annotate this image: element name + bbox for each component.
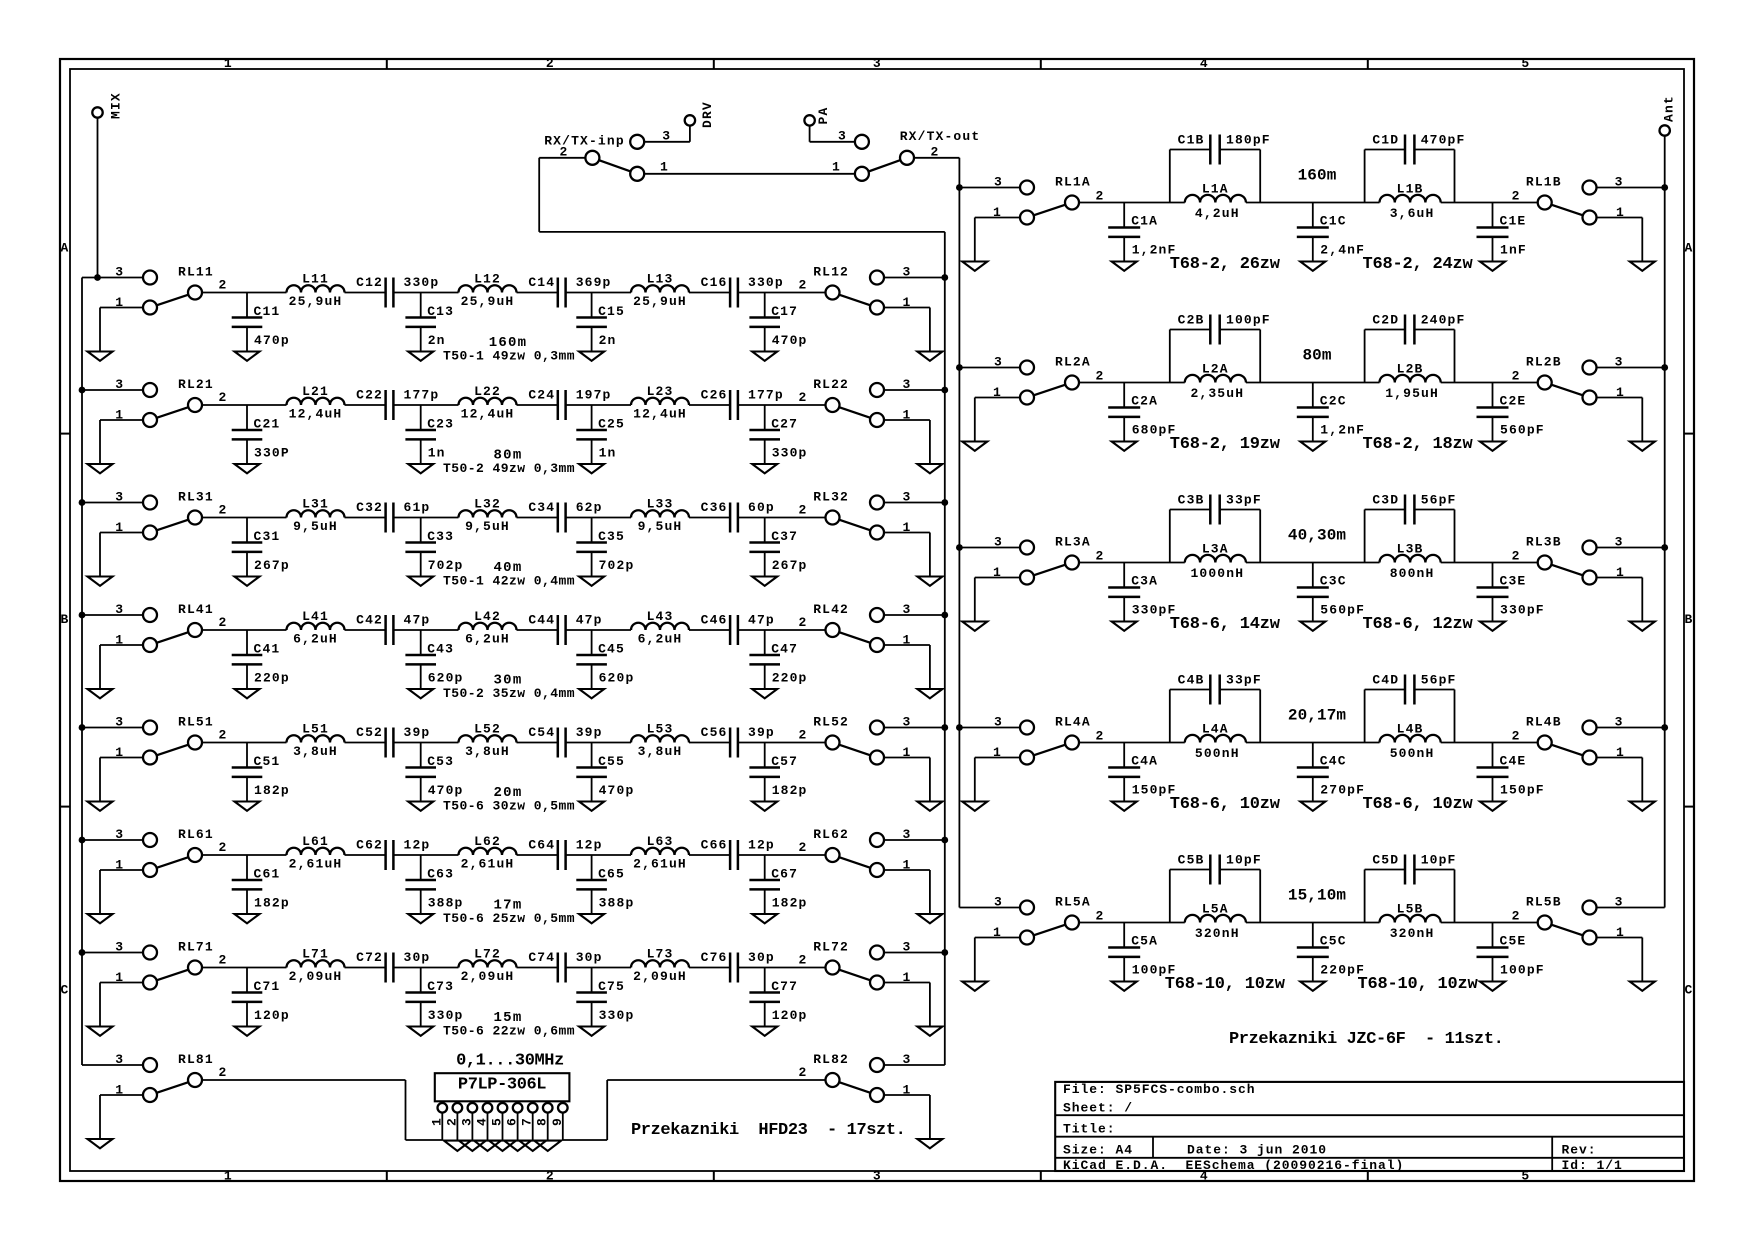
inductor L1B (1380, 182, 1441, 222)
capacitor C16 (701, 275, 784, 308)
svg-text:C4A: C4A (1131, 754, 1158, 769)
ground (579, 914, 604, 923)
inductor L12 (459, 272, 517, 309)
svg-text:39p: 39p (404, 725, 431, 740)
svg-text:L4B: L4B (1397, 722, 1424, 737)
junction (956, 184, 963, 191)
svg-text:177p: 177p (748, 387, 784, 402)
svg-text:320nH: 320nH (1195, 926, 1240, 941)
capacitor C2C (1297, 383, 1365, 442)
wire main (202, 967, 287, 969)
wire (929, 983, 931, 1027)
wire (1597, 937, 1643, 939)
ground (534, 1141, 561, 1151)
ground (88, 1139, 113, 1148)
wire main (202, 854, 287, 856)
ground (579, 802, 604, 811)
wire main (202, 629, 287, 631)
svg-text:MIX: MIX (109, 92, 124, 119)
wire (884, 614, 945, 616)
capacitor C21 (232, 405, 290, 464)
wire (99, 533, 101, 577)
svg-text:T68-10, 10zw: T68-10, 10zw (1165, 975, 1286, 994)
svg-text:T68-6, 10zw: T68-6, 10zw (1170, 795, 1281, 814)
svg-text:3: 3 (115, 827, 124, 842)
svg-text:RL72: RL72 (813, 940, 849, 955)
svg-text:C47: C47 (771, 642, 798, 657)
inductor L11 (287, 272, 345, 309)
svg-text:33pF: 33pF (1226, 493, 1262, 508)
wire (1597, 217, 1643, 219)
capacitor C73 (405, 968, 463, 1027)
svg-text:1: 1 (832, 160, 841, 175)
capacitor C1B (1170, 133, 1271, 203)
ground (1112, 622, 1137, 631)
ground (1630, 982, 1655, 991)
capacitor C1C (1297, 203, 1365, 262)
ground (474, 1141, 501, 1151)
wire (975, 397, 1020, 399)
svg-text:20,17m: 20,17m (1288, 707, 1347, 725)
svg-text:C52: C52 (356, 725, 383, 740)
wire (100, 644, 143, 646)
svg-text:4: 4 (1200, 56, 1209, 71)
svg-text:2,35uH: 2,35uH (1190, 386, 1244, 401)
svg-text:330p: 330p (748, 275, 784, 290)
svg-text:L5A: L5A (1202, 902, 1229, 917)
svg-text:2: 2 (1096, 909, 1105, 924)
svg-text:3: 3 (115, 377, 124, 392)
inductor L5B (1380, 902, 1441, 942)
svg-text:220p: 220p (254, 671, 290, 686)
capacitor C32 (356, 500, 430, 533)
svg-text:C43: C43 (427, 642, 454, 657)
svg-text:RL41: RL41 (178, 602, 214, 617)
svg-text:Rev:: Rev: (1562, 1143, 1597, 1158)
wire (100, 1094, 143, 1096)
wire row 4 pin3 feed (82, 614, 143, 616)
wire (405, 1080, 407, 1140)
junction (941, 387, 948, 394)
capacitor C41 (232, 630, 290, 689)
wire (1597, 757, 1643, 759)
svg-text:270pF: 270pF (1320, 783, 1365, 798)
wire (1641, 938, 1643, 982)
svg-text:C1D: C1D (1372, 133, 1399, 148)
svg-text:267p: 267p (772, 558, 808, 573)
wire (975, 937, 1020, 939)
relay RL22 (799, 377, 912, 427)
junction (79, 387, 86, 394)
wire (929, 308, 931, 352)
relay RL62 (799, 827, 912, 877)
svg-text:C74: C74 (528, 950, 555, 965)
svg-text:3: 3 (994, 175, 1003, 190)
svg-text:2n: 2n (428, 333, 446, 348)
svg-text:2: 2 (219, 953, 228, 968)
wire main (202, 517, 287, 519)
svg-text:L41: L41 (302, 609, 329, 624)
wire (884, 389, 945, 391)
relay RL82 (799, 1052, 912, 1102)
wire (1597, 187, 1665, 189)
svg-text:9: 9 (550, 1117, 565, 1126)
wire (884, 1064, 945, 1066)
ground (917, 1139, 942, 1148)
wire row 5 pin3 feed (82, 727, 143, 729)
inductor L22 (459, 384, 517, 421)
svg-text:RL52: RL52 (813, 715, 849, 730)
capacitor C71 (232, 968, 290, 1027)
wire (1597, 367, 1665, 369)
svg-text:3: 3 (115, 1052, 124, 1067)
svg-text:RL62: RL62 (813, 827, 849, 842)
svg-text:369p: 369p (576, 275, 612, 290)
svg-text:C1B: C1B (1178, 133, 1205, 148)
wire (974, 758, 976, 802)
capacitor C53 (405, 743, 463, 802)
relay RL4A (993, 715, 1104, 765)
svg-text:560pF: 560pF (1320, 603, 1365, 618)
capacitor C36 (701, 500, 775, 533)
svg-text:C1E: C1E (1500, 214, 1527, 229)
wire (99, 308, 101, 352)
wire (975, 217, 1020, 219)
svg-text:39p: 39p (748, 725, 775, 740)
svg-text:C24: C24 (528, 387, 555, 402)
wire (100, 757, 143, 759)
svg-text:L31: L31 (302, 497, 329, 512)
svg-text:C34: C34 (528, 500, 555, 515)
svg-text:L53: L53 (647, 722, 674, 737)
svg-text:C76: C76 (701, 950, 728, 965)
ground (1630, 622, 1655, 631)
ground (1300, 262, 1325, 271)
ground (235, 689, 260, 698)
svg-text:RL82: RL82 (813, 1052, 849, 1067)
wire (809, 125, 811, 142)
ground (752, 352, 777, 361)
ground (235, 352, 260, 361)
svg-text:C4B: C4B (1178, 673, 1205, 688)
ground (1300, 442, 1325, 451)
svg-text:2n: 2n (599, 333, 617, 348)
relay RL5A (993, 895, 1104, 945)
svg-text:L73: L73 (647, 947, 674, 962)
capacitor C14 (528, 275, 611, 308)
svg-text:RL42: RL42 (813, 602, 849, 617)
capacitor C4B (1170, 673, 1262, 743)
svg-text:RL31: RL31 (178, 490, 214, 505)
svg-text:L2A: L2A (1202, 362, 1229, 377)
wire (99, 645, 101, 689)
svg-text:C64: C64 (528, 837, 555, 852)
svg-text:2: 2 (1512, 189, 1521, 204)
svg-text:39p: 39p (576, 725, 603, 740)
svg-text:12,4uH: 12,4uH (633, 406, 687, 421)
capacitor C5E (1477, 923, 1545, 982)
wire left bus (81, 278, 83, 1066)
svg-text:2: 2 (1096, 369, 1105, 384)
ground (962, 982, 987, 991)
svg-text:12p: 12p (404, 837, 431, 852)
junction (956, 724, 963, 731)
wire (929, 870, 931, 914)
svg-text:320nH: 320nH (1390, 926, 1435, 941)
svg-text:150pF: 150pF (1500, 783, 1545, 798)
junction (1661, 724, 1668, 731)
ground (88, 914, 113, 923)
ground (1480, 622, 1505, 631)
wire (100, 419, 143, 421)
svg-text:3,8uH: 3,8uH (465, 744, 510, 759)
capacitor C75 (576, 968, 634, 1027)
svg-text:500nH: 500nH (1195, 746, 1240, 761)
wire row 5 pin3 feed (959, 907, 1020, 909)
svg-text:470p: 470p (428, 783, 464, 798)
svg-text:10pF: 10pF (1421, 853, 1457, 868)
wire (884, 1094, 930, 1096)
ground (1112, 982, 1137, 991)
svg-text:C77: C77 (771, 979, 798, 994)
svg-text:T50-6 30zw 0,5mm: T50-6 30zw 0,5mm (443, 799, 575, 814)
wire (99, 758, 101, 802)
ground (88, 352, 113, 361)
ground (1112, 262, 1137, 271)
junction (941, 949, 948, 956)
ground (459, 1141, 486, 1151)
inductor L52 (459, 722, 517, 759)
svg-text:3: 3 (115, 265, 124, 280)
svg-text:6,2uH: 6,2uH (465, 631, 510, 646)
wire main (1079, 562, 1185, 564)
capacitor C3D (1365, 493, 1457, 563)
svg-text:C5B: C5B (1178, 853, 1205, 868)
svg-text:L72: L72 (474, 947, 501, 962)
svg-text:177p: 177p (404, 387, 440, 402)
svg-text:C22: C22 (356, 387, 383, 402)
svg-text:L62: L62 (474, 834, 501, 849)
capacitor C62 (356, 837, 430, 870)
svg-text:C17: C17 (771, 304, 798, 319)
svg-text:C4C: C4C (1320, 754, 1347, 769)
svg-text:C2E: C2E (1500, 394, 1527, 409)
svg-text:C62: C62 (356, 837, 383, 852)
svg-text:470p: 470p (772, 333, 808, 348)
capacitor C37 (749, 518, 807, 577)
svg-text:1nF: 1nF (1500, 243, 1527, 258)
svg-text:L61: L61 (302, 834, 329, 849)
junction (79, 724, 86, 731)
svg-text:C45: C45 (598, 642, 625, 657)
ground (88, 689, 113, 698)
svg-text:2: 2 (799, 953, 808, 968)
ground (752, 914, 777, 923)
svg-text:C5C: C5C (1320, 934, 1347, 949)
svg-text:P7LP-306L: P7LP-306L (458, 1076, 546, 1095)
svg-text:B: B (1685, 612, 1694, 627)
capacitor C72 (356, 950, 430, 983)
capacitor C24 (528, 387, 611, 420)
svg-text:L3A: L3A (1202, 542, 1229, 557)
wire (1641, 398, 1643, 442)
wire (884, 532, 930, 534)
svg-text:RL3A: RL3A (1055, 535, 1091, 550)
capacitor C55 (576, 743, 634, 802)
svg-text:C57: C57 (771, 754, 798, 769)
svg-text:C73: C73 (427, 979, 454, 994)
svg-text:0,1...30MHz: 0,1...30MHz (456, 1052, 564, 1071)
wire (929, 420, 931, 464)
svg-text:RL4A: RL4A (1055, 715, 1091, 730)
ground (917, 352, 942, 361)
svg-text:2: 2 (546, 1169, 555, 1184)
svg-text:L22: L22 (474, 384, 501, 399)
inductor L33 (631, 497, 689, 534)
junction (956, 544, 963, 551)
capacitor C56 (701, 725, 775, 758)
svg-text:T50-1 42zw 0,4mm: T50-1 42zw 0,4mm (443, 574, 575, 589)
svg-text:1,2nF: 1,2nF (1320, 423, 1365, 438)
svg-text:C61: C61 (254, 867, 281, 882)
wire (1597, 397, 1643, 399)
svg-text:30p: 30p (404, 950, 431, 965)
svg-text:100pF: 100pF (1500, 963, 1545, 978)
relay RL3A (993, 535, 1104, 585)
svg-text:RL22: RL22 (813, 377, 849, 392)
svg-text:9,5uH: 9,5uH (638, 519, 683, 534)
wire main (1079, 202, 1185, 204)
ground (917, 464, 942, 473)
svg-text:C46: C46 (701, 612, 728, 627)
global label Ant (1660, 95, 1677, 136)
svg-text:6: 6 (505, 1117, 520, 1126)
wire (644, 173, 855, 175)
wire (99, 983, 101, 1027)
ground (752, 577, 777, 586)
ground (1300, 802, 1325, 811)
ground (917, 577, 942, 586)
svg-text:C27: C27 (771, 417, 798, 432)
junction (79, 949, 86, 956)
wire (606, 1080, 608, 1140)
svg-text:47p: 47p (404, 612, 431, 627)
svg-text:470p: 470p (599, 783, 635, 798)
svg-text:2: 2 (1512, 369, 1521, 384)
svg-text:C15: C15 (598, 304, 625, 319)
relay RL51 (115, 715, 227, 765)
inductor L62 (459, 834, 517, 871)
switch RX/TX-out (832, 129, 980, 181)
svg-text:RL1B: RL1B (1526, 175, 1562, 190)
capacitor C34 (528, 500, 602, 533)
ground (579, 464, 604, 473)
svg-text:RL4B: RL4B (1526, 715, 1562, 730)
svg-text:C51: C51 (254, 754, 281, 769)
svg-text:3: 3 (459, 1117, 474, 1126)
connector P1 P7LP-306L (429, 1073, 569, 1140)
ground (962, 802, 987, 811)
ground (1300, 982, 1325, 991)
ground (917, 1027, 942, 1036)
svg-text:Przekazniki HFD23 - 17szt.: Przekazniki HFD23 - 17szt. (631, 1121, 905, 1140)
junction (79, 837, 86, 844)
svg-text:T68-6, 14zw: T68-6, 14zw (1170, 615, 1281, 634)
svg-text:Date: 3 jun 2010: Date: 3 jun 2010 (1187, 1143, 1327, 1158)
wire row 4 pin3 feed (959, 727, 1020, 729)
svg-text:12p: 12p (748, 837, 775, 852)
svg-text:C33: C33 (427, 529, 454, 544)
svg-text:L4A: L4A (1202, 722, 1229, 737)
svg-text:C2D: C2D (1372, 313, 1399, 328)
junction (956, 364, 963, 371)
svg-text:9,5uH: 9,5uH (293, 519, 338, 534)
capacitor C1D (1365, 133, 1466, 203)
svg-text:C41: C41 (254, 642, 281, 657)
svg-text:702p: 702p (428, 558, 464, 573)
svg-text:33pF: 33pF (1226, 673, 1262, 688)
svg-text:2: 2 (219, 503, 228, 518)
svg-text:C3A: C3A (1131, 574, 1158, 589)
capacitor C33 (405, 518, 463, 577)
ground (88, 577, 113, 586)
capacitor C44 (528, 612, 602, 645)
svg-text:25,9uH: 25,9uH (633, 294, 687, 309)
svg-text:330p: 330p (772, 446, 808, 461)
svg-text:File: SP5FCS-combo.sch: File: SP5FCS-combo.sch (1063, 1082, 1256, 1097)
svg-text:C: C (1685, 983, 1694, 998)
svg-text:12p: 12p (576, 837, 603, 852)
svg-text:1: 1 (429, 1117, 444, 1126)
svg-text:RL21: RL21 (178, 377, 214, 392)
capacitor C2A (1108, 383, 1176, 442)
relay RL1B (1512, 175, 1625, 225)
svg-text:Id: 1/1: Id: 1/1 (1562, 1158, 1623, 1173)
wire (974, 938, 976, 982)
svg-text:56pF: 56pF (1421, 493, 1457, 508)
svg-text:3: 3 (115, 940, 124, 955)
global label PA (804, 107, 831, 126)
svg-text:5: 5 (1521, 56, 1530, 71)
capacitor C12 (356, 275, 439, 308)
svg-text:2: 2 (799, 840, 808, 855)
svg-text:2: 2 (799, 1065, 808, 1080)
svg-text:2: 2 (1096, 549, 1105, 564)
wire (974, 218, 976, 262)
inductor L2A (1185, 362, 1246, 402)
svg-text:160m: 160m (1298, 167, 1337, 185)
ground (752, 1027, 777, 1036)
wire right-bank left bus (958, 158, 960, 908)
svg-text:330p: 330p (428, 1008, 464, 1023)
svg-text:RL32: RL32 (813, 490, 849, 505)
svg-text:RL2B: RL2B (1526, 355, 1562, 370)
ground (962, 442, 987, 451)
wire row 7 pin3 feed (82, 952, 143, 954)
svg-text:7: 7 (520, 1117, 535, 1126)
capacitor C4E (1477, 743, 1545, 802)
svg-text:A: A (61, 241, 70, 256)
capacitor C64 (528, 837, 602, 870)
svg-text:120p: 120p (254, 1008, 290, 1023)
wire row 2 pin3 feed (959, 367, 1020, 369)
relay RL21 (115, 377, 227, 427)
ground (579, 689, 604, 698)
svg-text:C23: C23 (427, 417, 454, 432)
svg-text:330p: 330p (404, 275, 440, 290)
svg-text:3: 3 (115, 602, 124, 617)
svg-text:2: 2 (1096, 189, 1105, 204)
